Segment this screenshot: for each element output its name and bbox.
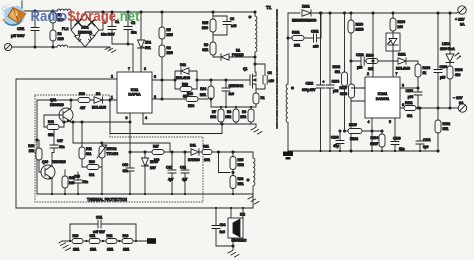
label R39 bbox=[89, 160, 95, 177]
resistor R131 bbox=[404, 106, 416, 111]
wire pin7 up bbox=[128, 44, 133, 72]
svg-text:C38: C38 bbox=[74, 175, 80, 179]
label C100 bbox=[440, 65, 448, 80]
svg-text:R132: R132 bbox=[332, 65, 340, 69]
label R34 bbox=[200, 87, 206, 97]
label C1 bbox=[101, 20, 119, 37]
svg-text:R15: R15 bbox=[202, 21, 208, 25]
svg-text:1: 1 bbox=[111, 96, 113, 100]
ground primary ac bbox=[105, 47, 116, 53]
svg-text:− 12V: − 12V bbox=[453, 96, 463, 100]
wire aux rail bbox=[130, 151, 253, 153]
label D101 bbox=[292, 5, 317, 23]
IC U31 body bbox=[117, 72, 152, 113]
label D32 bbox=[176, 63, 190, 80]
wire bottom input bbox=[12, 46, 57, 48]
resistor R8 bbox=[233, 107, 239, 124]
svg-text:82R: 82R bbox=[202, 48, 208, 52]
shunt regulator U131 bbox=[386, 33, 400, 51]
capacitor CY1 bbox=[70, 220, 136, 241]
resistor R6 bbox=[210, 42, 221, 57]
svg-text:C8: C8 bbox=[230, 17, 234, 21]
resistor R103 bbox=[447, 63, 453, 110]
svg-text:1M87: 1M87 bbox=[370, 142, 378, 146]
wire bridge bottom to ground bbox=[69, 46, 110, 48]
svg-text:2M1: 2M1 bbox=[123, 248, 129, 252]
label R31 bbox=[203, 145, 210, 163]
label C31 bbox=[166, 166, 174, 182]
svg-text:Q30: Q30 bbox=[42, 160, 48, 164]
wire sense bottom rail bbox=[143, 123, 256, 125]
svg-text:R130: R130 bbox=[398, 20, 406, 24]
wire pin3 line bbox=[400, 87, 418, 89]
capacitor C38 bbox=[74, 172, 82, 194]
svg-text:+ 12V: + 12V bbox=[455, 18, 465, 22]
resistor R40 bbox=[62, 170, 68, 194]
svg-text:2: 2 bbox=[367, 72, 369, 76]
svg-text:D31: D31 bbox=[190, 144, 196, 148]
svg-text:MCL4148: MCL4148 bbox=[396, 67, 410, 71]
wire bias line bbox=[73, 122, 170, 152]
label R139 bbox=[356, 23, 364, 32]
wire pin5 drop ic101 bbox=[394, 118, 396, 141]
resistor R38 bbox=[78, 98, 90, 103]
svg-text:1n0: 1n0 bbox=[229, 92, 235, 96]
choke FL2 bottom winding bbox=[57, 45, 68, 47]
label R1 bbox=[58, 13, 64, 22]
svg-text:R138: R138 bbox=[423, 66, 431, 70]
label R40 bbox=[69, 176, 75, 185]
svg-text:R1: R1 bbox=[261, 96, 265, 100]
LED1 bbox=[446, 12, 461, 63]
svg-text:C34: C34 bbox=[220, 223, 226, 227]
svg-text:R11: R11 bbox=[90, 234, 96, 238]
svg-text:M11: M11 bbox=[238, 182, 244, 186]
svg-text:R5: R5 bbox=[167, 28, 171, 32]
svg-text:C130: C130 bbox=[393, 137, 401, 141]
capacitor C34 bbox=[212, 208, 233, 246]
resistor R130 bbox=[390, 12, 396, 33]
wire thermal bottom rail bbox=[37, 193, 253, 195]
svg-text:M68: M68 bbox=[188, 104, 194, 108]
node rail joints bbox=[51, 193, 234, 195]
svg-text:R131: R131 bbox=[405, 101, 413, 105]
svg-text:91n: 91n bbox=[59, 145, 64, 149]
wire primary gnd long rail bbox=[16, 207, 253, 209]
svg-text:Q21: Q21 bbox=[50, 98, 56, 102]
svg-text:R43: R43 bbox=[28, 144, 34, 148]
svg-text:µ22: µ22 bbox=[333, 89, 339, 93]
svg-text:PG1010: PG1010 bbox=[232, 53, 244, 57]
resistor R12 bbox=[106, 239, 117, 244]
label R32 bbox=[182, 83, 188, 99]
wire pin5 gate line bbox=[152, 79, 248, 81]
wire HV rail bbox=[85, 12, 255, 14]
svg-text:7: 7 bbox=[396, 72, 398, 76]
svg-text:R33: R33 bbox=[238, 177, 244, 181]
label C38 bbox=[74, 175, 88, 185]
svg-text:KN4402S: KN4402S bbox=[50, 103, 65, 107]
label R102 bbox=[443, 122, 451, 131]
svg-text:3k1: 3k1 bbox=[89, 173, 94, 177]
label C102 bbox=[302, 82, 316, 93]
svg-text:M102: M102 bbox=[350, 137, 358, 141]
node r135 bbox=[371, 130, 373, 132]
node speaker taps bbox=[215, 207, 244, 209]
transformer T1 primary bbox=[249, 11, 257, 72]
label R103 bbox=[455, 68, 463, 77]
node tap bbox=[217, 151, 219, 153]
capacitor C103 bbox=[414, 88, 422, 109]
svg-text:NTC31: NTC31 bbox=[107, 147, 117, 151]
wire bridge right to rail bbox=[99, 12, 103, 30]
resistor R35 bbox=[230, 151, 236, 176]
capacitor C102 bbox=[317, 12, 325, 151]
svg-text:R51: R51 bbox=[443, 127, 449, 131]
svg-text:R42: R42 bbox=[48, 120, 54, 124]
svg-text:MCL4148: MCL4148 bbox=[92, 106, 106, 110]
node pin8 aux bbox=[129, 151, 131, 153]
label R43 bbox=[28, 144, 34, 153]
svg-text:R32: R32 bbox=[182, 83, 188, 87]
svg-text:C31: C31 bbox=[166, 166, 172, 170]
svg-text:5: 5 bbox=[154, 75, 156, 79]
capacitor C33 bbox=[222, 79, 230, 107]
svg-text:BAV103: BAV103 bbox=[188, 158, 200, 162]
label C37 bbox=[57, 139, 64, 149]
capacitor C100 bbox=[434, 12, 442, 109]
capacitor C4 bbox=[254, 63, 267, 89]
svg-text:R13: R13 bbox=[123, 234, 129, 238]
label C2 bbox=[131, 21, 136, 35]
svg-text:C131: C131 bbox=[423, 138, 431, 142]
resistor R2 bbox=[50, 30, 56, 48]
svg-text:C138: C138 bbox=[356, 53, 364, 57]
label NTC31 bbox=[107, 147, 119, 156]
diode D8 bbox=[94, 97, 117, 103]
label D8 bbox=[92, 92, 106, 110]
label R10 bbox=[73, 234, 80, 252]
resistor R37 bbox=[152, 150, 164, 155]
resistor R42 bbox=[44, 121, 65, 130]
svg-text:4: 4 bbox=[145, 116, 147, 120]
svg-text:5V1: 5V1 bbox=[145, 46, 151, 50]
label C130 bbox=[393, 137, 404, 152]
svg-text:MBR2535H100G: MBR2535H100G bbox=[292, 19, 317, 23]
svg-text:BD1: BD1 bbox=[81, 26, 88, 30]
wire feedback tap bbox=[219, 152, 231, 173]
svg-text:1R2: 1R2 bbox=[210, 115, 216, 119]
label plus12 bbox=[455, 18, 465, 27]
diode D31 bbox=[191, 149, 199, 155]
node rail c1 bbox=[102, 11, 104, 13]
capacitor C131 bbox=[416, 107, 424, 151]
label C4 bbox=[268, 71, 275, 83]
svg-text:C100: C100 bbox=[440, 65, 448, 69]
svg-text:n43: n43 bbox=[231, 24, 237, 28]
label R131 bbox=[405, 101, 413, 118]
svg-text:R31: R31 bbox=[203, 145, 209, 149]
svg-text:1R2: 1R2 bbox=[225, 115, 231, 119]
resistor R135 bbox=[345, 129, 383, 134]
diode D101 bbox=[302, 10, 311, 16]
svg-text:C136: C136 bbox=[331, 136, 339, 140]
svg-text:R103: R103 bbox=[455, 68, 463, 72]
svg-text:R101: R101 bbox=[292, 31, 300, 35]
svg-text:DB3806A: DB3806A bbox=[78, 31, 93, 35]
resistor R36 bbox=[186, 97, 198, 102]
resistor R1 bbox=[50, 10, 56, 30]
wire reg to ic bbox=[392, 50, 394, 77]
svg-text:5: 5 bbox=[389, 120, 391, 124]
transformer core bbox=[276, 10, 278, 128]
svg-text:R9: R9 bbox=[242, 110, 246, 114]
ground aux bbox=[248, 194, 259, 208]
label IC101 bbox=[376, 92, 389, 101]
svg-text:3k1: 3k1 bbox=[407, 114, 412, 118]
transistor Q21 bbox=[59, 99, 73, 122]
label R138 bbox=[423, 66, 431, 75]
terminal minus12 bbox=[458, 104, 466, 112]
svg-text:n47 1kV: n47 1kV bbox=[93, 230, 106, 234]
label IC2 bbox=[232, 213, 247, 243]
svg-text:91n: 91n bbox=[83, 180, 88, 184]
wire top input bbox=[12, 10, 57, 12]
ground sense bbox=[251, 124, 262, 134]
label LED1 bbox=[440, 42, 455, 51]
node gnd rail joints bbox=[319, 150, 421, 152]
wire Q21 base bbox=[44, 115, 63, 127]
svg-text:82n: 82n bbox=[123, 169, 128, 173]
svg-text:IC101: IC101 bbox=[378, 92, 388, 96]
svg-text:R4: R4 bbox=[167, 46, 171, 50]
label R101 bbox=[292, 31, 300, 48]
ground chassis secondary bbox=[283, 152, 293, 160]
svg-text:CY1: CY1 bbox=[96, 216, 102, 220]
svg-text:22M6: 22M6 bbox=[356, 28, 364, 32]
label ZD30 bbox=[150, 160, 158, 170]
svg-text:R6: R6 bbox=[204, 43, 208, 47]
label CY1 bbox=[93, 216, 106, 235]
label R11 bbox=[90, 234, 97, 252]
capacitor C32 bbox=[181, 151, 189, 194]
label C34 bbox=[220, 223, 226, 234]
zener ZD30 bbox=[142, 151, 149, 194]
capacitor C130 bbox=[391, 142, 399, 152]
node R5 top bbox=[161, 11, 163, 13]
svg-text:R34: R34 bbox=[200, 87, 206, 91]
wire pin2 long bbox=[16, 79, 117, 208]
terminal AC live bbox=[4, 1, 22, 15]
label R136 bbox=[366, 54, 374, 72]
svg-text:THERMAL PROTECTION: THERMAL PROTECTION bbox=[87, 197, 127, 202]
svg-text:2M1: 2M1 bbox=[73, 248, 79, 252]
label Q1 bbox=[230, 67, 247, 88]
svg-text:R10: R10 bbox=[73, 234, 79, 238]
svg-text:n10: n10 bbox=[269, 79, 275, 83]
svg-text:3A: 3A bbox=[459, 101, 464, 105]
label D31 bbox=[188, 144, 200, 163]
svg-text:3: 3 bbox=[402, 84, 404, 88]
resistor R102 bbox=[435, 108, 441, 152]
label CX1 bbox=[11, 26, 25, 38]
label R7 bbox=[210, 110, 216, 119]
label ZD1 bbox=[145, 41, 151, 51]
svg-text:3k78: 3k78 bbox=[340, 92, 347, 96]
label C103 bbox=[405, 89, 413, 99]
resistor R31 bbox=[202, 150, 212, 155]
resistor R14 bbox=[253, 93, 259, 107]
resistor R15 bbox=[210, 12, 227, 42]
node source joints bbox=[220, 106, 252, 108]
svg-text:KN4401S: KN4401S bbox=[52, 160, 67, 164]
label R12 bbox=[107, 234, 114, 252]
node R4 bottom bbox=[161, 79, 163, 81]
label C36 bbox=[122, 163, 128, 173]
label R37 bbox=[153, 145, 159, 163]
svg-text:7: 7 bbox=[128, 67, 130, 71]
svg-text:D131: D131 bbox=[398, 53, 406, 57]
wire pin2 up bbox=[372, 13, 374, 77]
label R4 bbox=[167, 46, 173, 55]
snubber C101 bbox=[312, 12, 322, 42]
svg-text:T1: T1 bbox=[266, 5, 272, 10]
capacitor C138 bbox=[350, 57, 366, 152]
resistor R13 bbox=[122, 239, 133, 244]
svg-text:3k1: 3k1 bbox=[86, 152, 91, 156]
label D1 bbox=[232, 49, 244, 58]
svg-text:R39: R39 bbox=[89, 160, 95, 164]
svg-text:M10: M10 bbox=[202, 26, 208, 30]
wire pin4 drop bbox=[142, 113, 144, 124]
label C8 bbox=[230, 17, 237, 28]
capacitor C1 bbox=[104, 11, 116, 44]
label R2 bbox=[58, 32, 64, 41]
label R42 bbox=[48, 120, 54, 137]
svg-text:R135: R135 bbox=[349, 123, 357, 127]
svg-text:8: 8 bbox=[126, 116, 128, 120]
svg-text:+: + bbox=[323, 80, 325, 84]
svg-text:R36: R36 bbox=[187, 92, 193, 96]
capacitor C36 bbox=[126, 152, 134, 194]
node buzzer gnd bbox=[232, 245, 234, 247]
wire pin8 drop bbox=[129, 113, 131, 152]
label C33 bbox=[229, 84, 235, 96]
label R35 bbox=[238, 158, 244, 167]
resistor R5 bbox=[159, 27, 165, 39]
svg-text:n68: n68 bbox=[313, 45, 319, 49]
svg-text:R37: R37 bbox=[153, 145, 159, 149]
svg-text:MCL4148: MCL4148 bbox=[176, 76, 190, 80]
diode D1 bbox=[221, 54, 256, 60]
resistor R138 bbox=[415, 64, 421, 88]
svg-text:µ47 300V: µ47 300V bbox=[11, 34, 25, 38]
bridge rectifier BD1 bbox=[71, 14, 99, 47]
svg-text:47µ: 47µ bbox=[333, 144, 338, 148]
label R33 bbox=[238, 177, 244, 186]
svg-text:µ68: µ68 bbox=[408, 95, 414, 99]
svg-text:M65: M65 bbox=[167, 33, 173, 37]
svg-text:IC31: IC31 bbox=[131, 88, 139, 92]
svg-text:µ10: µ10 bbox=[440, 76, 446, 80]
capacitor C8 bbox=[223, 16, 231, 35]
resistor R41 bbox=[79, 121, 87, 167]
transistor Q30 bbox=[41, 153, 55, 194]
svg-text:3: 3 bbox=[154, 95, 156, 99]
svg-text:R38: R38 bbox=[79, 92, 85, 96]
svg-text:15k: 15k bbox=[48, 133, 53, 137]
svg-text:RadioStorage.net: RadioStorage.net bbox=[31, 8, 140, 25]
ground buzzer bbox=[228, 246, 239, 257]
snubber R101 bbox=[287, 36, 312, 41]
resistor R137 bbox=[349, 84, 366, 101]
svg-text:CX1: CX1 bbox=[17, 26, 25, 31]
label R15 bbox=[202, 21, 208, 30]
node pin3 c103 bbox=[417, 87, 419, 89]
label C134 bbox=[332, 80, 340, 94]
capacitor C136 bbox=[336, 130, 344, 151]
resistor R7 bbox=[218, 107, 224, 124]
resistor R132 bbox=[342, 12, 348, 132]
svg-text:2M1: 2M1 bbox=[90, 248, 96, 252]
svg-text:C101: C101 bbox=[311, 30, 319, 34]
resistor R9 bbox=[248, 107, 254, 124]
resistor R39 bbox=[87, 165, 102, 170]
wire minus12 line bbox=[400, 107, 458, 109]
label IC31 bbox=[128, 88, 141, 97]
node snubber top bbox=[212, 11, 214, 13]
label R135 bbox=[349, 123, 358, 141]
svg-text:2M1: 2M1 bbox=[107, 248, 113, 252]
svg-text:µ10: µ10 bbox=[357, 66, 363, 70]
terminal AC neutral bbox=[4, 43, 11, 50]
resistor R4 bbox=[159, 45, 165, 57]
terminal plus12 bbox=[457, 6, 466, 14]
svg-text:4k7: 4k7 bbox=[80, 106, 85, 110]
svg-text:C37: C37 bbox=[57, 139, 63, 143]
label R36 bbox=[187, 92, 194, 108]
diode D131 bbox=[398, 58, 418, 64]
label Q30 bbox=[42, 160, 67, 164]
svg-text:C4: C4 bbox=[268, 71, 272, 75]
mosfet Q1 bbox=[248, 72, 256, 93]
svg-text:R7: R7 bbox=[212, 110, 216, 114]
label R5 bbox=[167, 28, 173, 37]
resistor R139 bbox=[348, 12, 354, 61]
capacitor CX1 bbox=[31, 10, 39, 48]
svg-text:R139: R139 bbox=[356, 23, 364, 27]
svg-text:TTC474: TTC474 bbox=[107, 152, 119, 156]
svg-text:M92: M92 bbox=[238, 163, 244, 167]
wire secondary ground rail bbox=[288, 150, 438, 152]
svg-text:82n: 82n bbox=[399, 147, 404, 151]
svg-text:D101: D101 bbox=[302, 5, 310, 9]
resistor R33 bbox=[230, 176, 236, 195]
resistor R134 bbox=[379, 130, 385, 151]
svg-text:1M0: 1M0 bbox=[58, 37, 64, 41]
svg-text:M65: M65 bbox=[167, 51, 173, 55]
IC U101 body bbox=[365, 77, 400, 118]
label C138 bbox=[356, 53, 364, 70]
svg-text:R102: R102 bbox=[443, 122, 451, 126]
diode D32 branch bbox=[174, 68, 198, 81]
svg-text:DAP8A: DAP8A bbox=[128, 93, 141, 97]
svg-text:k30: k30 bbox=[154, 158, 159, 162]
wire source rail bbox=[211, 106, 256, 108]
node chain joints bbox=[69, 240, 137, 242]
capacitor C31 bbox=[168, 151, 176, 194]
svg-text:4µ7: 4µ7 bbox=[182, 178, 188, 182]
